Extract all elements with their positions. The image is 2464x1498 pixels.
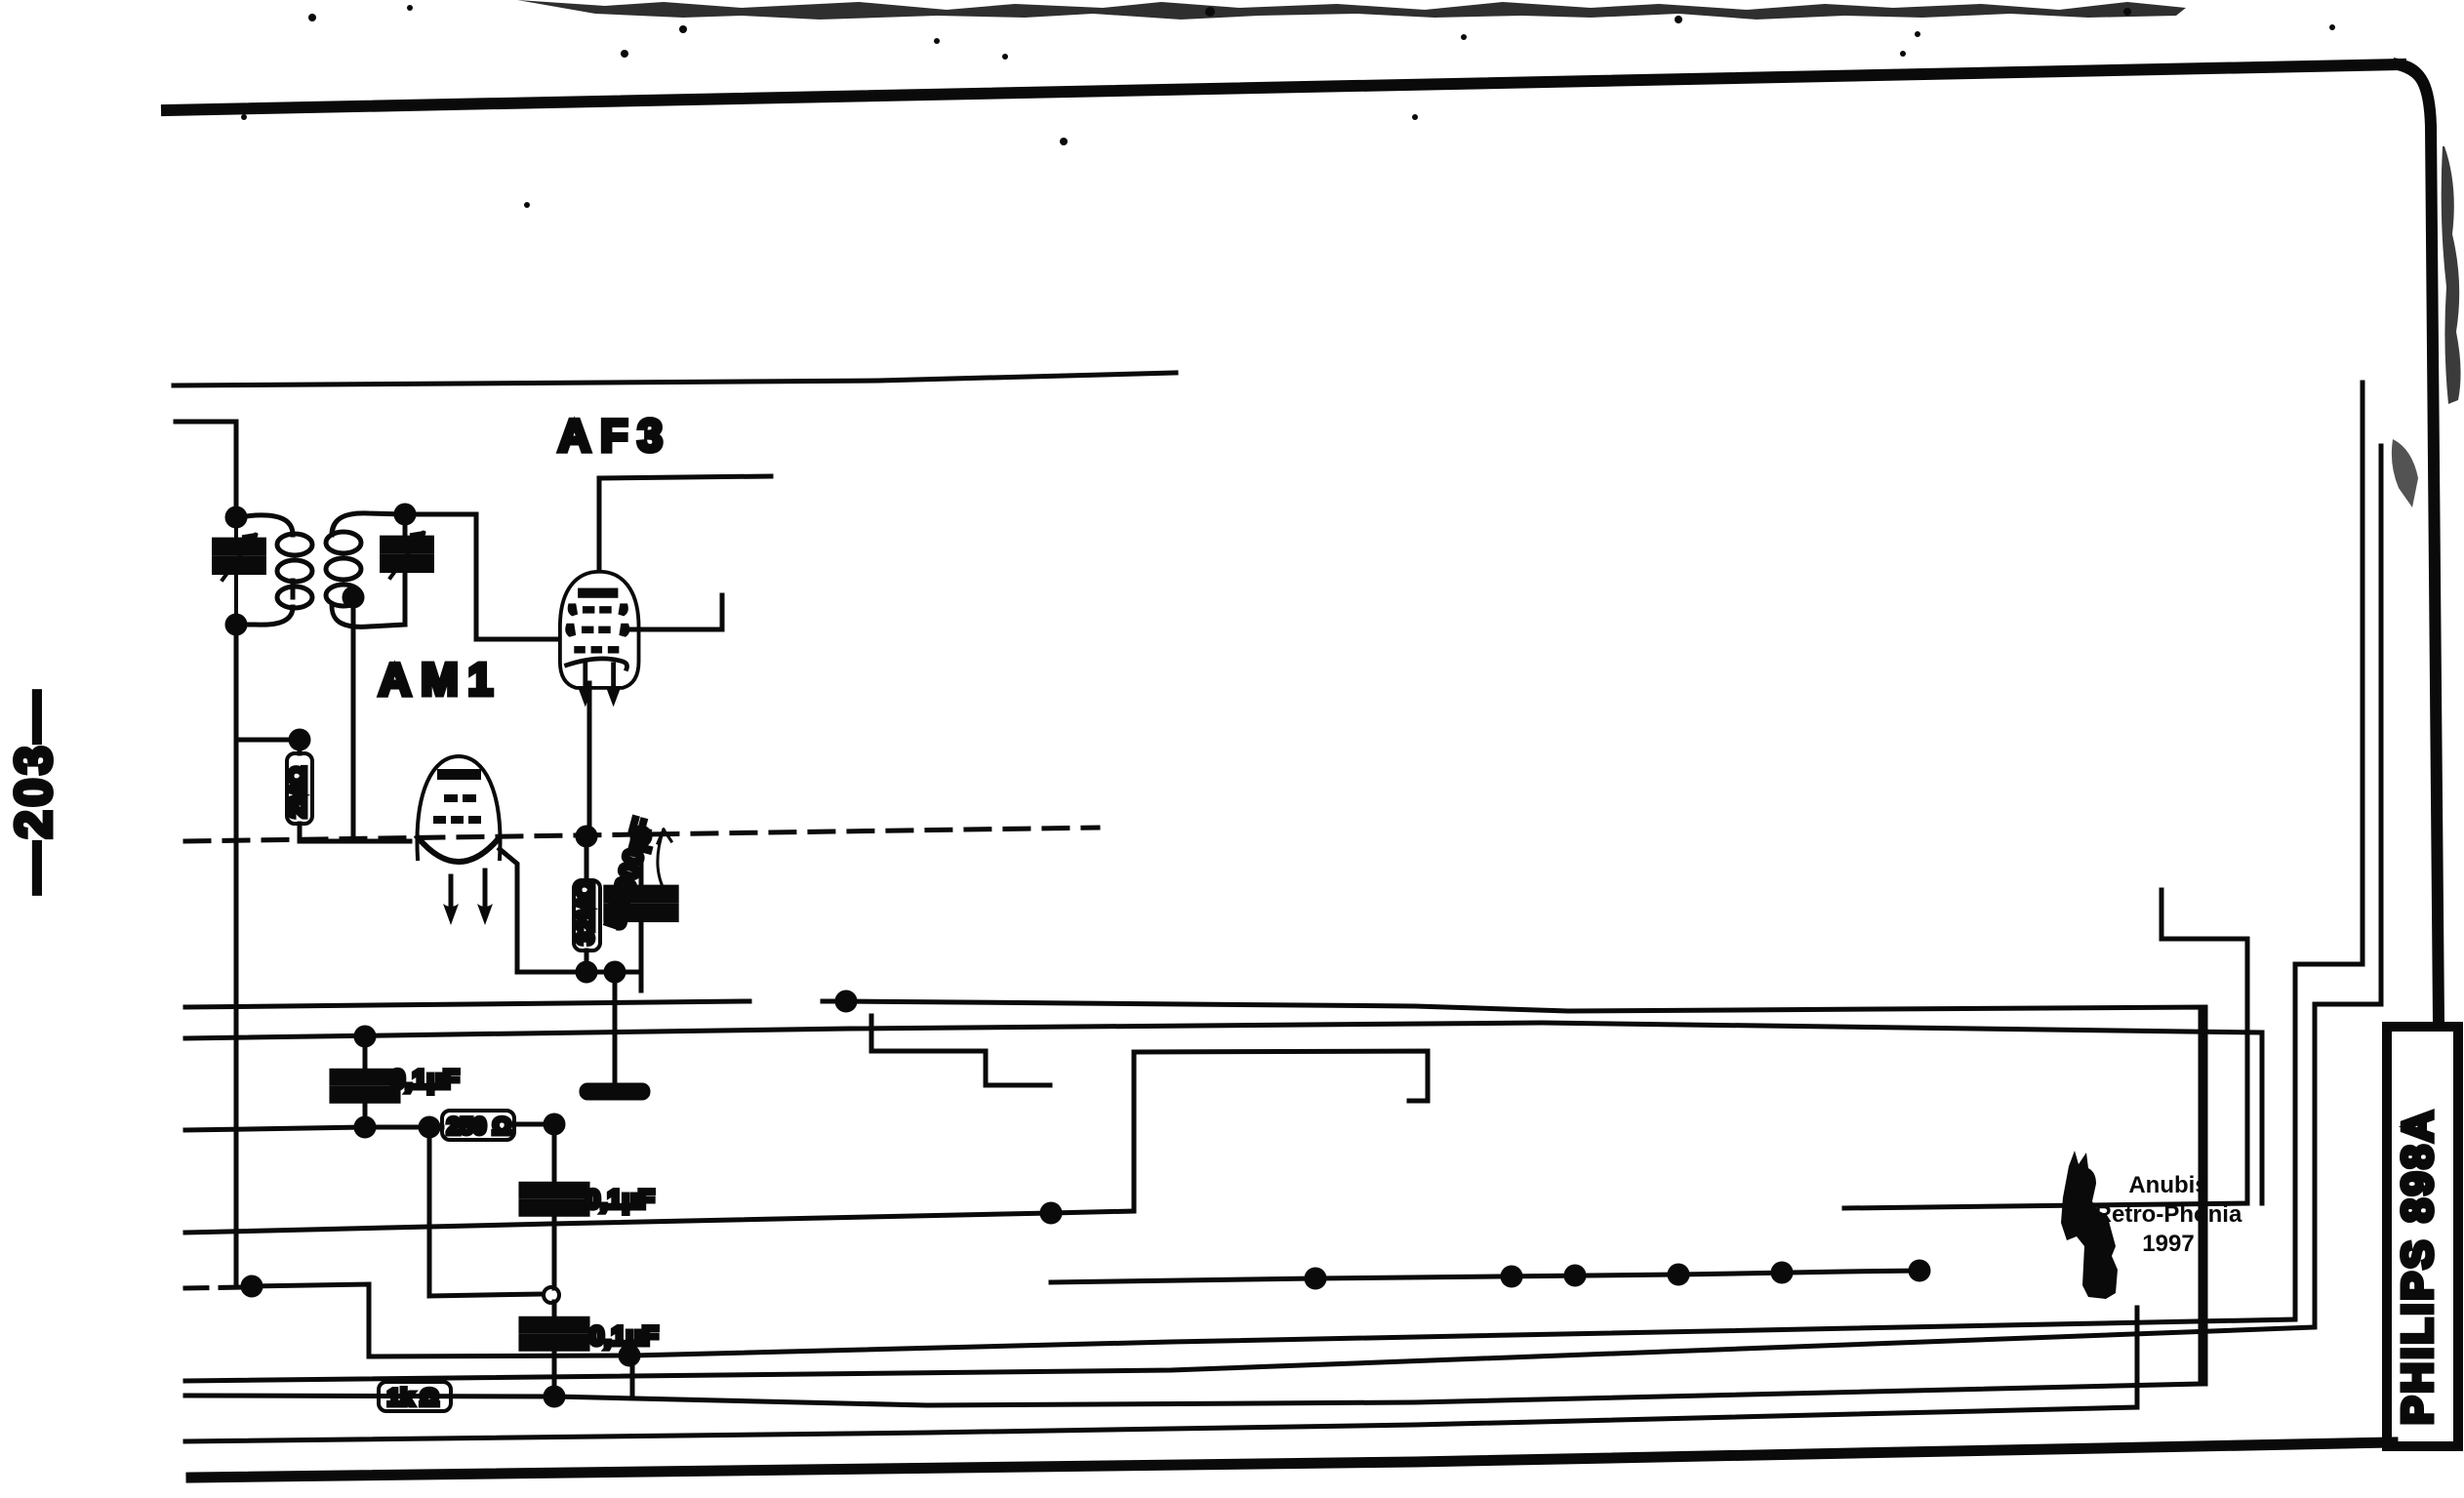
wire riser 1k to L2 — [630, 1356, 635, 1395]
resistor 250ohm — [442, 1111, 514, 1140]
wire bus L4 — [185, 1010, 2201, 1405]
antenna tank 2 — [332, 513, 405, 628]
coil ant2 — [326, 532, 361, 606]
border bottom — [191, 1442, 2393, 1478]
wire long top-left y390 — [174, 373, 1176, 385]
wire row 250ohm y1155 — [185, 1124, 554, 1130]
wire B+ line A/B — [185, 1001, 2205, 1384]
capacitor 0,1uF no3 — [523, 1320, 586, 1349]
svg-text:0,1μF: 0,1μF — [586, 1185, 655, 1214]
svg-text:0,1μF: 0,1μF — [589, 1321, 659, 1351]
label 50.000pF rotated — [600, 815, 658, 931]
wire B+ line C — [185, 1023, 2262, 1203]
svg-text:Anubis: Anubis — [2128, 1172, 2207, 1198]
resistor 2M vertical — [285, 753, 312, 824]
scan smudge right edge — [2442, 146, 2461, 404]
border right — [2399, 64, 2439, 1023]
svg-text:AF3: AF3 — [558, 410, 672, 461]
wire 2M bottom to AM1 grid — [300, 824, 410, 841]
wire 32M leads — [585, 836, 589, 972]
wire bus L2 (dashed start) — [185, 1287, 244, 1288]
coil ant1 — [277, 534, 312, 608]
wire 2M top — [236, 740, 300, 753]
svg-text:—203—: —203— — [6, 688, 62, 894]
svg-text:250 Ω: 250 Ω — [447, 1113, 511, 1140]
PHILIPS 898A text — [2394, 1108, 2442, 1425]
tube AM1 — [417, 756, 500, 925]
wire bus L3 — [185, 446, 2381, 1381]
wire tank2 top to AF3 grid — [405, 514, 546, 639]
page number 203 — [6, 688, 62, 894]
wire AF3 anode top — [599, 476, 771, 569]
dashed AVC line — [185, 828, 1098, 841]
PHILIPS 898A title block box — [2387, 1027, 2458, 1446]
svg-text:0,1μF: 0,1μF — [390, 1065, 460, 1094]
wire ant riser down — [234, 625, 239, 1285]
resistor 32M vertical — [573, 880, 600, 951]
wire tank coupling bottom — [351, 597, 356, 841]
wire AM1 anode up — [300, 740, 459, 756]
junction dots antenna — [227, 508, 245, 526]
wire AM1 cathode — [500, 849, 615, 972]
variable capacitor ant1 — [215, 542, 263, 571]
svg-text:32MΩ: 32MΩ — [573, 880, 599, 945]
wire AF3 cathode — [587, 683, 592, 836]
Anubis logo — [2061, 1151, 2118, 1299]
junction dots bus — [243, 1277, 261, 1295]
variable capacitor ant2 — [383, 540, 430, 569]
wire cathode row y996 — [517, 972, 641, 991]
wire bus L6 — [185, 1308, 2137, 1441]
svg-text:PHILIPS 898A: PHILIPS 898A — [2394, 1108, 2442, 1425]
wire 16M-row to pot — [871, 1016, 1428, 1101]
wire riser x440 down — [429, 1127, 540, 1296]
antenna tank 1 — [236, 515, 293, 625]
capacitor 0,1uF no1 — [334, 1073, 397, 1101]
ground AF3 cathode — [613, 972, 618, 1085]
open circle contact — [544, 1287, 559, 1303]
svg-text:AM1: AM1 — [379, 654, 503, 705]
svg-text:1997: 1997 — [2142, 1231, 2194, 1257]
wire chassis row E — [1051, 1271, 1919, 1282]
border top — [167, 64, 2401, 110]
wire AF3 grid left entry — [546, 637, 557, 642]
wire AF3 screen right — [629, 595, 722, 629]
wire L1-right / speaker return — [1844, 890, 2247, 1208]
wire antenna feed — [176, 422, 236, 517]
svg-text:1k Ω: 1k Ω — [387, 1385, 439, 1411]
wire riser x568 — [552, 1124, 557, 1397]
capacitor 0,1uF no2 — [523, 1186, 586, 1214]
wire bus L1 — [185, 1052, 1134, 1233]
resistor 1k — [379, 1382, 451, 1411]
tube AF3 — [560, 572, 639, 708]
capacitor 50000pF — [608, 889, 674, 918]
scan noise top edge — [241, 0, 2335, 208]
svg-text:2MΩ: 2MΩ — [285, 766, 311, 818]
